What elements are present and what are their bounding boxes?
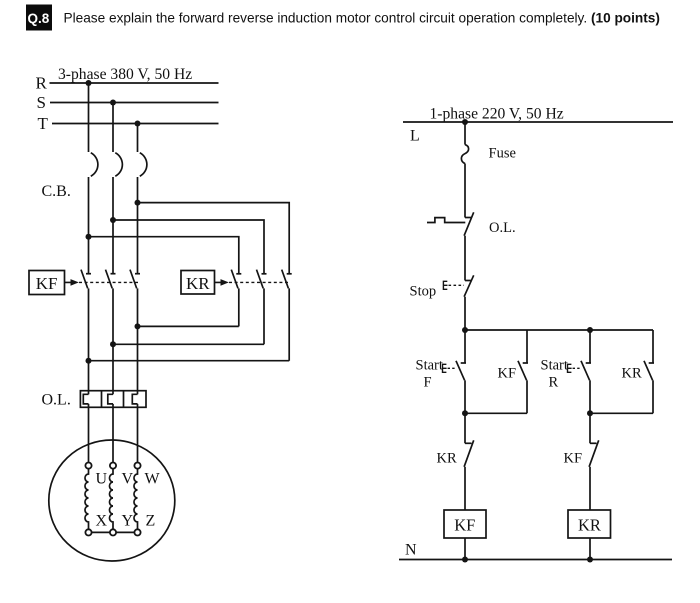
junction dot on phase S xyxy=(110,341,116,347)
overload trip contact O.L. xyxy=(427,212,474,235)
wire feeder R to KR pole 1 xyxy=(89,237,239,274)
question number badge Q.8 xyxy=(26,5,52,31)
junction dot L xyxy=(462,119,468,125)
stator winding W-Z xyxy=(134,469,138,530)
wire phase T to overload xyxy=(137,326,139,394)
contactor coil KF xyxy=(444,510,486,538)
svg-text:Q.8: Q.8 xyxy=(28,11,50,26)
node T label xyxy=(38,114,49,133)
wire KR pole 1 output to phase T xyxy=(138,325,239,327)
svg-text:Y: Y xyxy=(122,512,134,529)
contact KR pole 3 xyxy=(282,270,292,361)
dashed actuator link KR xyxy=(229,281,291,283)
contactor coil KR xyxy=(568,510,611,538)
svg-text:O.L.: O.L. xyxy=(42,392,71,409)
motor body circle xyxy=(49,440,175,561)
label C.B. xyxy=(42,183,71,200)
label X xyxy=(96,512,108,529)
wire phase R breaker to KF contact xyxy=(88,177,90,274)
auxiliary contact KR (seal-in) xyxy=(644,330,654,413)
svg-text:F: F xyxy=(424,375,432,391)
pushbutton actuator E of Stop xyxy=(443,281,447,289)
arrow from KF box xyxy=(65,279,79,286)
svg-text:S: S xyxy=(37,93,46,112)
svg-text:KF: KF xyxy=(498,366,517,382)
svg-text:V: V xyxy=(122,470,134,487)
dashed link Start F xyxy=(448,367,457,369)
contact KR pole 1 xyxy=(231,270,241,327)
svg-text:KF: KF xyxy=(36,274,58,293)
wire fuse to O.L. contact xyxy=(464,164,466,218)
heater element phase R xyxy=(83,394,88,404)
svg-text:U: U xyxy=(96,470,108,487)
contactor coil box KF xyxy=(29,271,65,295)
pushbutton actuator E of Start F xyxy=(443,364,447,372)
wire feeder S to KR pole 2 xyxy=(113,220,264,274)
wire KF coil to N xyxy=(464,538,466,560)
bus R xyxy=(50,82,219,84)
wire KR pole 2 output to phase S xyxy=(113,343,264,345)
wire O.L. to Stop xyxy=(464,236,466,281)
junction dot F node xyxy=(462,410,468,416)
svg-text:Start: Start xyxy=(541,358,568,374)
interlock NC contact KR xyxy=(464,413,474,510)
svg-text:KR: KR xyxy=(578,516,601,535)
junction dot R xyxy=(86,80,92,86)
heater element phase S xyxy=(108,394,113,404)
wire phase S to overload xyxy=(112,344,114,394)
label KF aux xyxy=(498,366,517,382)
junction dot N right xyxy=(587,557,593,563)
interlock NC contact KF xyxy=(589,413,599,510)
junction dot on phase R xyxy=(86,358,92,364)
svg-text:KF: KF xyxy=(564,451,583,467)
junction dot T xyxy=(135,121,141,127)
wire KR coil to N xyxy=(589,538,591,560)
svg-text:Z: Z xyxy=(146,512,156,529)
svg-text:C.B.: C.B. xyxy=(42,183,71,200)
wire KR aux to node xyxy=(590,412,653,414)
svg-text:Please explain the forward rev: Please explain the forward reverse induc… xyxy=(64,10,660,25)
junction dot rail left xyxy=(462,327,468,333)
start R pushbutton NO contact xyxy=(581,330,591,413)
circuit breaker C.B. pole R xyxy=(91,153,98,176)
svg-text:O.L.: O.L. xyxy=(489,220,516,236)
terminal Z xyxy=(134,529,140,535)
overload relay O.L. box xyxy=(80,391,146,408)
stator winding U-X xyxy=(85,469,89,530)
junction dot S xyxy=(110,100,116,106)
svg-text:Stop: Stop xyxy=(410,284,437,300)
label Stop xyxy=(410,284,437,300)
junction dot R feeder xyxy=(86,234,92,240)
dashed actuator link KF xyxy=(79,281,139,283)
wire phase R to overload xyxy=(88,361,90,395)
bus N xyxy=(399,559,672,561)
label KR aux xyxy=(622,366,642,382)
wire phase T above breaker xyxy=(137,124,139,153)
dashed link Start R xyxy=(573,367,582,369)
label 1-phase 220 V, 50 Hz xyxy=(430,106,564,123)
svg-text:KF: KF xyxy=(454,516,475,535)
svg-text:KR: KR xyxy=(186,274,210,293)
junction dot S feeder xyxy=(110,217,116,223)
junction dot on phase T xyxy=(135,323,141,329)
circuit breaker C.B. pole S xyxy=(115,153,122,176)
star link Y-Z xyxy=(116,531,134,533)
stop pushbutton NC contact xyxy=(464,275,474,330)
node L label xyxy=(410,128,420,145)
label KR interlock xyxy=(437,451,457,467)
heater element phase T xyxy=(132,394,137,404)
node R label xyxy=(36,74,48,93)
contact KF pole R xyxy=(81,270,91,361)
node S label xyxy=(37,93,46,112)
label W xyxy=(145,470,161,487)
svg-text:KR: KR xyxy=(437,451,457,467)
svg-text:Start: Start xyxy=(416,358,443,374)
svg-text:KR: KR xyxy=(622,366,642,382)
label KF interlock xyxy=(564,451,583,467)
terminal Y xyxy=(110,529,116,535)
wire L to fuse xyxy=(464,122,466,145)
wire phase T breaker to KF contact xyxy=(137,177,139,274)
contact KF pole T xyxy=(130,270,140,327)
question title text xyxy=(64,10,660,25)
svg-text:N: N xyxy=(405,542,417,559)
label 3-phase 380 V, 50 Hz xyxy=(58,66,192,83)
circuit breaker C.B. pole T xyxy=(140,153,147,176)
bus S xyxy=(50,102,219,104)
label Y xyxy=(122,512,134,529)
svg-text:R: R xyxy=(36,74,48,93)
terminal W xyxy=(134,463,140,469)
svg-text:1-phase 220 V, 50 Hz: 1-phase 220 V, 50 Hz xyxy=(430,106,564,123)
node N label xyxy=(405,542,417,559)
wire phase R above breaker xyxy=(88,83,90,152)
label Z xyxy=(146,512,156,529)
wire overload to motor U xyxy=(88,404,90,463)
auxiliary contact KF (seal-in) xyxy=(518,330,528,413)
contactor coil box KR xyxy=(181,271,215,295)
wire KR pole 3 output to phase R xyxy=(89,360,290,362)
pushbutton actuator E of Start R xyxy=(568,364,572,372)
bus T xyxy=(52,123,219,125)
stator winding V-Y xyxy=(109,469,113,530)
junction dot R node xyxy=(587,410,593,416)
label Start R xyxy=(541,358,568,391)
label O.L. xyxy=(42,392,71,409)
svg-text:Fuse: Fuse xyxy=(489,146,516,162)
svg-text:T: T xyxy=(38,114,49,133)
start F pushbutton NO contact xyxy=(456,330,466,413)
wire phase S breaker to KF contact xyxy=(112,177,114,274)
dashed link Stop xyxy=(449,284,465,286)
svg-text:L: L xyxy=(410,128,420,145)
wire KF aux to node xyxy=(465,412,527,414)
fuse F1 xyxy=(461,145,468,164)
terminal U xyxy=(85,463,91,469)
junction dot N left xyxy=(462,557,468,563)
label V xyxy=(122,470,134,487)
wire phase S above breaker xyxy=(112,103,114,153)
label O.L. xyxy=(489,220,516,236)
svg-text:W: W xyxy=(145,470,161,487)
wire overload to motor W xyxy=(137,404,139,463)
contact KR pole 2 xyxy=(257,270,267,345)
junction dot rail right xyxy=(587,327,593,333)
arrow from KR box xyxy=(215,279,229,286)
label U xyxy=(96,470,108,487)
svg-text:3-phase 380 V, 50 Hz: 3-phase 380 V, 50 Hz xyxy=(58,66,192,83)
junction dot T feeder xyxy=(135,200,141,206)
control rail xyxy=(465,329,653,331)
label Start F xyxy=(416,358,443,391)
contact KF pole S xyxy=(106,270,116,345)
star link X-Y xyxy=(92,531,110,533)
terminal X xyxy=(85,529,91,535)
svg-text:X: X xyxy=(96,512,108,529)
wire feeder T to KR pole 3 xyxy=(138,203,290,274)
label Fuse xyxy=(489,146,516,162)
bus L xyxy=(403,121,673,123)
terminal V xyxy=(110,463,116,469)
wire overload to motor V xyxy=(112,404,114,463)
svg-text:R: R xyxy=(549,375,559,391)
